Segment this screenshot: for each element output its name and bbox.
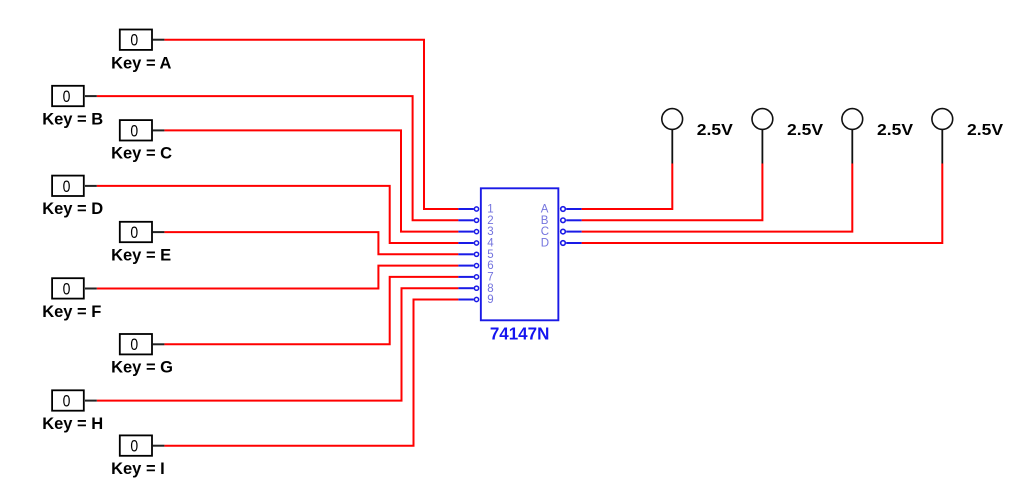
svg-text:8: 8 — [487, 283, 493, 295]
svg-text:2.5V: 2.5V — [697, 122, 733, 139]
svg-text:2.5V: 2.5V — [967, 122, 1003, 139]
svg-text:3: 3 — [487, 226, 493, 238]
svg-text:B: B — [541, 215, 549, 227]
svg-text:Key = E: Key = E — [111, 246, 171, 264]
svg-text:Key = D: Key = D — [42, 200, 103, 218]
svg-text:D: D — [541, 238, 549, 250]
svg-text:74147N: 74147N — [490, 323, 550, 343]
svg-text:0: 0 — [130, 438, 138, 456]
svg-text:0: 0 — [63, 393, 71, 411]
svg-text:0: 0 — [63, 280, 71, 298]
svg-text:Key = H: Key = H — [42, 415, 103, 433]
svg-text:0: 0 — [130, 122, 138, 140]
svg-text:Key = G: Key = G — [111, 359, 173, 377]
svg-text:9: 9 — [487, 294, 493, 306]
svg-text:1: 1 — [487, 204, 493, 216]
svg-text:2.5V: 2.5V — [877, 122, 913, 139]
svg-text:Key = B: Key = B — [42, 110, 103, 128]
svg-text:Key = I: Key = I — [111, 460, 165, 478]
svg-text:Key = C: Key = C — [111, 145, 172, 163]
svg-text:0: 0 — [130, 224, 138, 242]
svg-text:0: 0 — [63, 178, 71, 196]
svg-text:5: 5 — [487, 249, 493, 261]
svg-text:A: A — [541, 204, 549, 216]
svg-text:C: C — [541, 226, 549, 238]
svg-text:2: 2 — [487, 215, 493, 227]
svg-text:0: 0 — [63, 88, 71, 106]
svg-text:6: 6 — [487, 260, 493, 272]
svg-text:0: 0 — [130, 32, 138, 50]
svg-text:4: 4 — [487, 238, 494, 250]
svg-text:7: 7 — [487, 272, 493, 284]
svg-text:Key = A: Key = A — [111, 54, 171, 72]
svg-text:2.5V: 2.5V — [787, 122, 823, 139]
svg-text:Key = F: Key = F — [42, 303, 101, 321]
svg-text:0: 0 — [130, 336, 138, 354]
